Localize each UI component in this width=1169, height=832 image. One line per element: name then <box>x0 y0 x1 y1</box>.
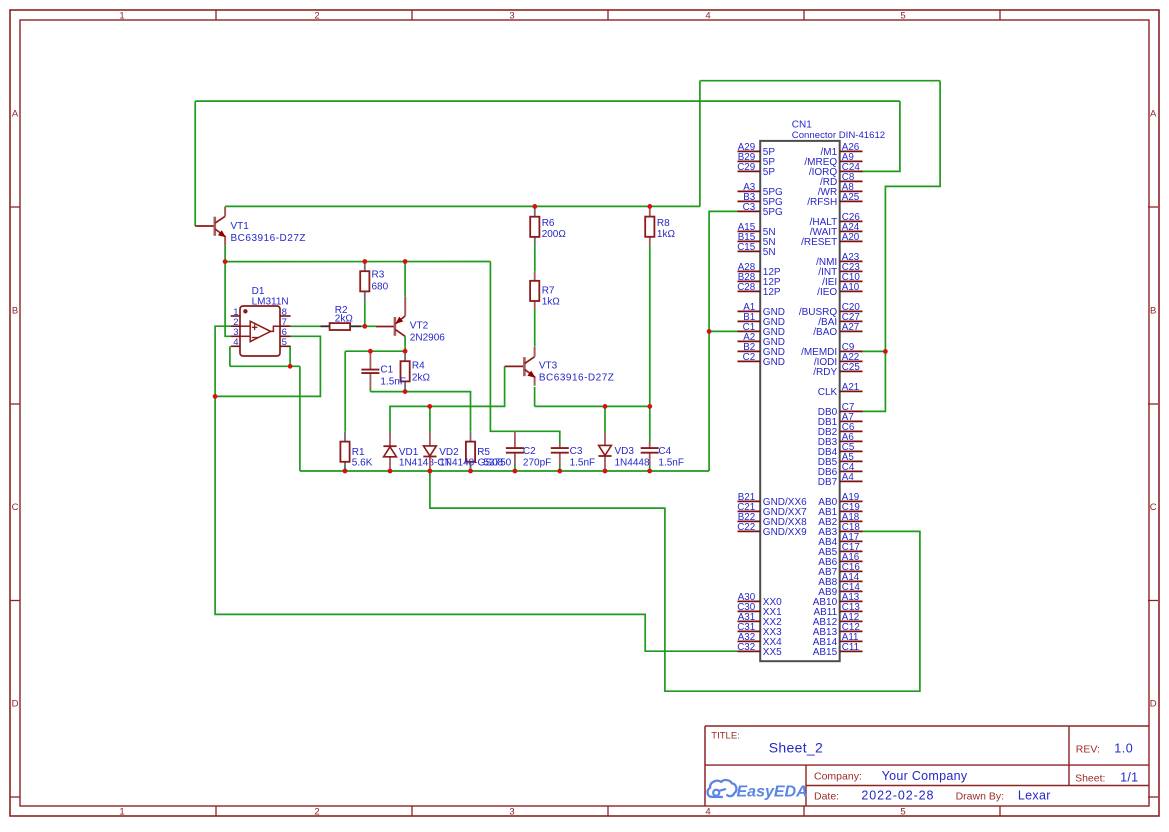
svg-text:C3: C3 <box>743 202 756 213</box>
wire VT1 emitter to pin3 <box>225 262 231 337</box>
wire VT2 collector <box>404 262 406 297</box>
svg-text:2022-02-28: 2022-02-28 <box>861 789 934 803</box>
svg-text:680: 680 <box>372 282 389 293</box>
svg-text:3: 3 <box>509 807 514 818</box>
svg-text:LM311N: LM311N <box>252 297 289 308</box>
svg-text:C3: C3 <box>570 446 583 457</box>
svg-text:C15: C15 <box>737 242 756 253</box>
title block text <box>711 731 1138 803</box>
title block lines <box>705 726 1149 806</box>
svg-text:C: C <box>12 502 19 513</box>
svg-text:A21: A21 <box>842 382 859 393</box>
svg-text:VD3: VD3 <box>615 446 635 457</box>
wire C24 to y101 <box>861 101 900 171</box>
wire pin4/pin5 y366 <box>230 365 300 367</box>
wire R6 to R7 <box>534 245 536 271</box>
svg-text:270pF: 270pF <box>523 457 551 468</box>
wire C2 bottom <box>514 464 516 471</box>
svg-text:4: 4 <box>705 807 710 818</box>
svg-text:D: D <box>12 699 19 710</box>
wire R3 bottom <box>364 301 366 326</box>
svg-text:Your Company: Your Company <box>882 769 968 783</box>
wire VT3 emitter down <box>534 387 536 406</box>
wire pin2 <box>215 326 231 396</box>
wire VT1 base drop <box>194 101 196 226</box>
svg-text:EasyEDA: EasyEDA <box>737 784 808 801</box>
svg-text:A10: A10 <box>842 282 860 293</box>
svg-text:1kΩ: 1kΩ <box>542 297 561 308</box>
svg-text:C22: C22 <box>737 522 755 533</box>
wire pin5 drop <box>289 346 291 366</box>
svg-text:C4: C4 <box>658 446 671 457</box>
svg-text:/IEO: /IEO <box>817 287 837 298</box>
svg-text:VT1: VT1 <box>231 221 250 232</box>
svg-text:C25: C25 <box>842 362 861 373</box>
wire VD2 bottom big loop <box>430 471 920 691</box>
svg-text:5: 5 <box>282 337 287 348</box>
diode VD3 1N4448 <box>598 433 611 471</box>
connector CN1 body <box>760 141 840 661</box>
wire y391 R4 bottom <box>370 392 470 432</box>
capacitor C3 1.5nF <box>551 443 569 465</box>
svg-text:C: C <box>1150 502 1157 513</box>
svg-text:200Ω: 200Ω <box>542 229 567 240</box>
svg-text:2kΩ: 2kΩ <box>335 314 354 325</box>
wire rail y206 <box>225 205 700 207</box>
svg-text:BC63916-D27Z: BC63916-D27Z <box>539 373 614 384</box>
svg-text:B: B <box>1150 306 1156 317</box>
svg-text:AB15: AB15 <box>813 647 838 658</box>
svg-text:XX5: XX5 <box>763 647 782 658</box>
svg-text:Sheet:: Sheet: <box>1075 773 1105 785</box>
svg-text:C2: C2 <box>743 352 756 363</box>
svg-text:2N2906: 2N2906 <box>410 332 445 343</box>
wire VD3 top <box>604 406 606 433</box>
svg-text:A: A <box>1150 109 1157 120</box>
svg-text:C11: C11 <box>842 642 859 653</box>
wire pin4 drop <box>229 346 231 366</box>
svg-text:2: 2 <box>314 10 319 21</box>
resistor R7 1k <box>530 272 539 309</box>
svg-text:1kΩ: 1kΩ <box>657 229 676 240</box>
svg-text:R6: R6 <box>542 218 555 229</box>
wire x700 vertical <box>699 81 701 207</box>
svg-text:5: 5 <box>900 10 905 21</box>
wire CN1 C1 stub <box>709 330 737 332</box>
svg-text:1: 1 <box>119 10 124 21</box>
svg-text:2kΩ: 2kΩ <box>412 373 431 384</box>
resistor R6 200 <box>530 206 539 245</box>
svg-text:GND: GND <box>763 357 785 368</box>
svg-text:1N4148-GS08: 1N4148-GS08 <box>439 457 503 468</box>
svg-text:/RESET: /RESET <box>801 237 837 248</box>
svg-text:R7: R7 <box>542 286 555 297</box>
svg-text:D: D <box>1150 699 1157 710</box>
wire pin7 to R2 <box>291 325 321 327</box>
svg-text:VT2: VT2 <box>410 321 429 332</box>
resistor R5 3750 <box>466 432 475 470</box>
wire VT2 emitter <box>404 346 406 351</box>
capacitor C1 1.5nF <box>361 351 379 388</box>
svg-text:/BAO: /BAO <box>813 327 837 338</box>
wire C3 bottom <box>559 464 561 471</box>
resistor R8 1k <box>645 206 654 245</box>
wire VT1 emitter <box>224 245 226 261</box>
svg-text:4: 4 <box>233 337 238 348</box>
svg-text:R3: R3 <box>372 270 385 281</box>
svg-text:A4: A4 <box>842 472 855 483</box>
wire pin6 loop <box>215 336 320 396</box>
svg-text:Drawn By:: Drawn By: <box>956 791 1004 803</box>
svg-text:5.6K: 5.6K <box>352 457 373 468</box>
connector CN1 pin stubs <box>738 151 863 651</box>
svg-text:5N: 5N <box>763 247 776 258</box>
svg-text:/RDY: /RDY <box>813 367 837 378</box>
wire R2 to VT2 base <box>361 325 376 327</box>
junction dots <box>213 204 888 473</box>
resistor R2 2k <box>320 323 361 330</box>
transistor VT1 BC63916-D27Z <box>215 207 226 246</box>
svg-text:1.0: 1.0 <box>1114 742 1133 756</box>
wire C9 stub <box>861 350 886 352</box>
svg-text:REV:: REV: <box>1076 744 1100 756</box>
svg-text:1.5nF: 1.5nF <box>570 457 596 468</box>
wire R5 bottom <box>470 466 472 471</box>
svg-text:Connector DIN-41612: Connector DIN-41612 <box>792 130 885 141</box>
svg-text:Lexar: Lexar <box>1018 789 1051 803</box>
wire top y101 <box>195 100 900 102</box>
resistor R3 680 <box>360 262 369 302</box>
wire y351 C1/R4 top <box>345 350 405 352</box>
capacitor C4 1.5nF <box>641 442 659 466</box>
svg-text:CN1: CN1 <box>792 119 812 130</box>
wire to XX5 <box>215 396 737 651</box>
transistor VT3 BC63916-D27Z <box>524 347 535 386</box>
wire x940 step to C9/C7 column <box>861 81 941 412</box>
op-amp D1 LM311N <box>231 306 291 356</box>
wire C4 top <box>649 406 651 442</box>
svg-text:/RFSH: /RFSH <box>807 197 837 208</box>
svg-text:R8: R8 <box>657 218 670 229</box>
wire R7 to VT3 collector <box>534 309 536 347</box>
svg-text:4: 4 <box>705 10 710 21</box>
svg-text:C2: C2 <box>523 446 536 457</box>
svg-text:B: B <box>12 306 18 317</box>
svg-text:5P: 5P <box>763 167 776 178</box>
svg-text:1.5nF: 1.5nF <box>380 377 406 388</box>
wire top y80 <box>700 80 940 82</box>
capacitor C2 270pF <box>506 431 524 465</box>
svg-text:BC63916-D27Z: BC63916-D27Z <box>231 233 306 244</box>
svg-text:1N4448: 1N4448 <box>615 457 650 468</box>
svg-text:12P: 12P <box>763 287 781 298</box>
svg-text:A25: A25 <box>842 192 860 203</box>
wire R1 top drop <box>344 351 346 432</box>
diode VD2 1N4148-GS08 <box>423 432 436 471</box>
svg-text:2: 2 <box>314 807 319 818</box>
svg-text:D1: D1 <box>252 286 265 297</box>
wire y406 VD1/VD2 to VT3 base <box>390 366 505 433</box>
wire R1 bottom <box>344 466 346 471</box>
svg-text:C28: C28 <box>737 282 756 293</box>
svg-text:Company:: Company: <box>814 771 862 783</box>
EasyEDA logo <box>708 780 808 801</box>
wire C1 bottom <box>369 388 371 392</box>
resistor R4 2k <box>401 351 410 391</box>
wire bus left riser <box>299 366 301 471</box>
svg-text:VT3: VT3 <box>539 361 558 372</box>
connector CN1 pin numbers <box>737 142 860 653</box>
wire VD2 top <box>429 406 431 433</box>
transistor VT3 base wire <box>505 365 525 367</box>
svg-text:CLK: CLK <box>818 387 838 398</box>
transistor VT2 2N2906 <box>376 297 405 347</box>
resistor R1 5.6K <box>340 432 349 470</box>
svg-text:Sheet_2: Sheet_2 <box>769 740 823 756</box>
svg-text:A: A <box>12 109 19 120</box>
svg-text:1.5nF: 1.5nF <box>658 457 684 468</box>
transistor VT1 base wire <box>195 225 215 227</box>
svg-text:GND/XX9: GND/XX9 <box>763 527 807 538</box>
wire rail y261 <box>225 261 490 263</box>
svg-text:1/1: 1/1 <box>1120 771 1138 785</box>
diode VD1 1N4148-CT <box>383 432 396 471</box>
wire ground bus y471 <box>300 470 709 472</box>
svg-text:Date:: Date: <box>814 791 839 803</box>
svg-text:3: 3 <box>509 10 514 21</box>
svg-text:1: 1 <box>119 807 124 818</box>
wire CN1 C3/C1 to bus <box>709 211 737 471</box>
svg-text:TITLE:: TITLE: <box>711 731 740 742</box>
svg-text:A27: A27 <box>842 322 859 333</box>
svg-text:A20: A20 <box>842 232 860 243</box>
wire R8 bottom <box>649 245 651 406</box>
svg-text:C29: C29 <box>737 162 755 173</box>
connector CN1 pin names <box>763 147 838 658</box>
wire y406 VD3/C4 <box>535 405 650 407</box>
wire C4 bottom <box>649 464 651 471</box>
svg-text:5PG: 5PG <box>763 207 783 218</box>
svg-text:DB7: DB7 <box>818 477 838 488</box>
svg-text:5: 5 <box>900 807 905 818</box>
svg-text:C1: C1 <box>380 365 393 376</box>
wire x490 down to C2 <box>490 262 559 444</box>
svg-text:C32: C32 <box>737 642 755 653</box>
svg-text:R4: R4 <box>412 361 425 372</box>
